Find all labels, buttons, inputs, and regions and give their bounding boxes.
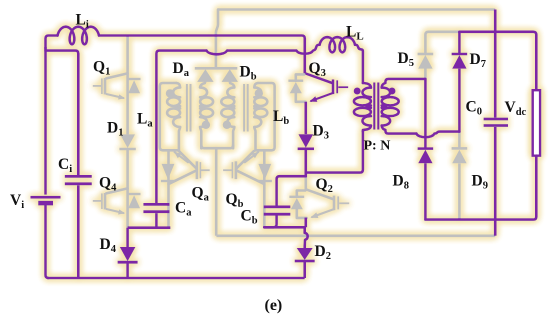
Lb dot top right — [255, 89, 263, 97]
transformer primary loop 1 — [354, 97, 371, 105]
wire D1 to Q4 — [126, 150, 129, 228]
diode D1 — [120, 134, 135, 148]
transformer primary winding — [362, 88, 370, 126]
La right winding loop 1 — [200, 97, 213, 106]
wire D2 hop over gray return — [305, 233, 308, 248]
diode D5 — [418, 55, 432, 69]
battery Vi short plate — [38, 201, 53, 206]
transformer primary hook bottom — [363, 126, 371, 132]
wire Q2 collector — [304, 176, 307, 189]
transformer secondary loop 2 — [382, 108, 399, 116]
capacitor Ca bottom plate — [143, 210, 169, 213]
wire C0 bottom to gray return — [494, 127, 497, 236]
coupled inductor Lb core bar left — [243, 84, 245, 132]
wire Da Db bus — [195, 67, 238, 70]
svg-text:P: N: P: N — [364, 139, 391, 154]
wire Q3 emitter to D3 — [304, 102, 307, 134]
capacitor Ca top plate — [143, 203, 169, 206]
wire bottom rail — [47, 277, 305, 280]
coupled inductor La left winding hook top — [176, 83, 180, 87]
diode D7 — [452, 55, 466, 69]
wire output minus to D8 — [424, 163, 427, 219]
wire gray center tap upper — [216, 10, 218, 68]
wire Ci branch top — [46, 51, 79, 175]
coupled inductor Lb right winding hook bottom — [254, 127, 255, 150]
resistor Vdc load — [533, 90, 540, 156]
Lb right winding loop 1 — [254, 97, 267, 106]
Lb left winding loop 2 — [221, 108, 234, 117]
diode D2 — [297, 248, 313, 260]
wire Ci branch bottom — [77, 185, 80, 278]
wire C0 branch top — [494, 10, 497, 118]
svg-text:(e): (e) — [265, 297, 283, 314]
transformer dot primary — [354, 88, 361, 95]
inductor Li — [58, 27, 100, 45]
capacitor Cb top plate — [264, 205, 291, 208]
coupled inductor Lb right winding wrap — [256, 83, 275, 150]
wire clamp rail middle — [227, 49, 297, 52]
coupled inductor La left winding wrap — [160, 83, 179, 150]
capacitor Ci top plate — [65, 175, 92, 178]
Lb left winding loop 1 — [221, 97, 234, 106]
transformer secondary loop 1 — [382, 97, 399, 105]
diode Da — [197, 69, 213, 82]
wire clamp rail from Ca corner — [156, 51, 206, 203]
transformer core bar right — [377, 83, 379, 130]
La left winding loop 1 — [167, 97, 180, 106]
wire left rail upper — [44, 47, 47, 195]
wire gray top line — [218, 8, 496, 11]
diode D4 — [120, 247, 136, 261]
wire output plus rail — [459, 32, 536, 90]
transformer core bar left — [373, 83, 375, 130]
coupled inductor La right winding hook top — [200, 82, 205, 88]
coupled inductor Lb left winding — [227, 87, 234, 127]
coupled inductor La right winding — [200, 87, 207, 127]
wire Cb bottom — [264, 216, 276, 228]
wire D5 to gray rail corner — [425, 32, 459, 53]
coupled inductor La core bar right — [190, 84, 192, 132]
wire inner bus — [201, 145, 233, 148]
wire D8 to secondary top node — [424, 79, 427, 148]
wire input top rail left — [46, 36, 58, 50]
diode D3 — [298, 134, 313, 148]
wire gray return line — [216, 235, 495, 238]
coupled inductor La core bar left — [186, 84, 188, 132]
coupled inductor La right winding hook bottom — [200, 127, 201, 148]
wire node to primary bottom — [306, 131, 363, 173]
wire center drop — [215, 148, 218, 236]
transistor Q4 — [106, 188, 127, 193]
capacitor Ci bottom plate — [65, 182, 92, 185]
transformer secondary hook top — [382, 79, 426, 88]
wire Q1 collector from top rail — [126, 36, 129, 135]
transistor Q1 — [106, 73, 127, 78]
Lb right winding loop 2 — [254, 108, 267, 117]
diode D5 branch wire — [424, 69, 427, 78]
coupled inductor Lb core bar right — [247, 84, 249, 132]
inductor LL — [320, 37, 355, 52]
transformer dot secondary — [389, 88, 396, 95]
coupled inductor Lb left winding hook top — [230, 82, 234, 88]
transformer secondary winding — [382, 88, 390, 126]
wire D9 to output minus — [458, 164, 461, 220]
La dot bottom right — [202, 121, 210, 129]
wire D4 to bottom rail — [126, 263, 129, 278]
wire input top rail — [99, 36, 305, 74]
coupled inductor Lb left winding hook bottom — [233, 127, 234, 148]
wire Q2 emitter to Cb node — [304, 218, 307, 228]
wire left rail lower — [46, 205, 49, 278]
La right winding loop 2 — [200, 108, 213, 117]
Lb dot bottom left — [223, 121, 231, 129]
wire Ca node horizontal — [128, 226, 171, 229]
diode Db — [222, 69, 238, 82]
wire D7 to output rail — [458, 32, 461, 53]
coupled inductor La left winding hook bottom — [179, 127, 180, 150]
wire D3 to node — [304, 149, 307, 172]
diode D9 wire top — [458, 132, 461, 149]
wire Q4 node to D4 — [126, 228, 129, 247]
transistor Qa — [167, 150, 170, 227]
capacitor Cb bottom plate — [264, 213, 291, 216]
wire node to Cb tap — [277, 173, 306, 206]
wire D2 to bottom rail — [303, 261, 306, 278]
transformer primary hook top — [363, 83, 371, 88]
transistor Q2 — [306, 189, 333, 199]
capacitor C0 top plate — [484, 118, 508, 121]
diode D9 — [452, 148, 468, 163]
La dot top left — [166, 89, 174, 97]
wire load bottom — [425, 156, 536, 220]
transformer primary loop 2 — [354, 108, 371, 116]
coupled inductor Lb right winding hook top — [254, 83, 258, 87]
wire Cb node to D2 — [264, 227, 304, 233]
transistor Qb — [263, 150, 266, 227]
wire Ca bottom — [155, 213, 158, 228]
wire D7 anode — [458, 69, 461, 132]
coupled inductor Lb right winding — [254, 87, 261, 127]
battery Vi long plate — [31, 196, 61, 199]
wire secondary bottom with hop over D5-D8 branch — [416, 132, 459, 138]
coupled inductor La left winding — [173, 87, 180, 127]
diode D8 — [418, 150, 432, 164]
transformer secondary hook bottom — [382, 126, 417, 134]
capacitor C0 bottom plate — [484, 124, 508, 127]
wire hop over Q3 branch — [297, 45, 320, 54]
wire LL to transformer primary — [355, 45, 363, 83]
La left winding loop 2 — [167, 108, 180, 117]
transistor Q3 — [305, 73, 332, 83]
wire hop over gray center tap — [207, 51, 228, 55]
